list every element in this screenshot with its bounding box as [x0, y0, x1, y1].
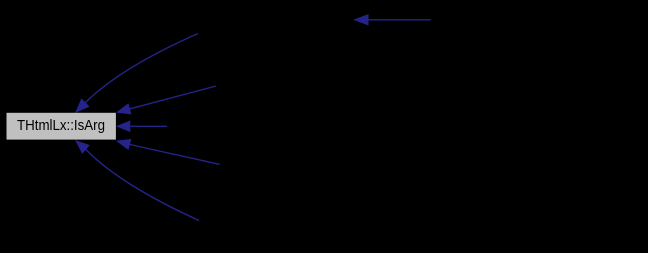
svg-text:THtmlLx::IsArg: THtmlLx::IsArg: [17, 117, 105, 134]
